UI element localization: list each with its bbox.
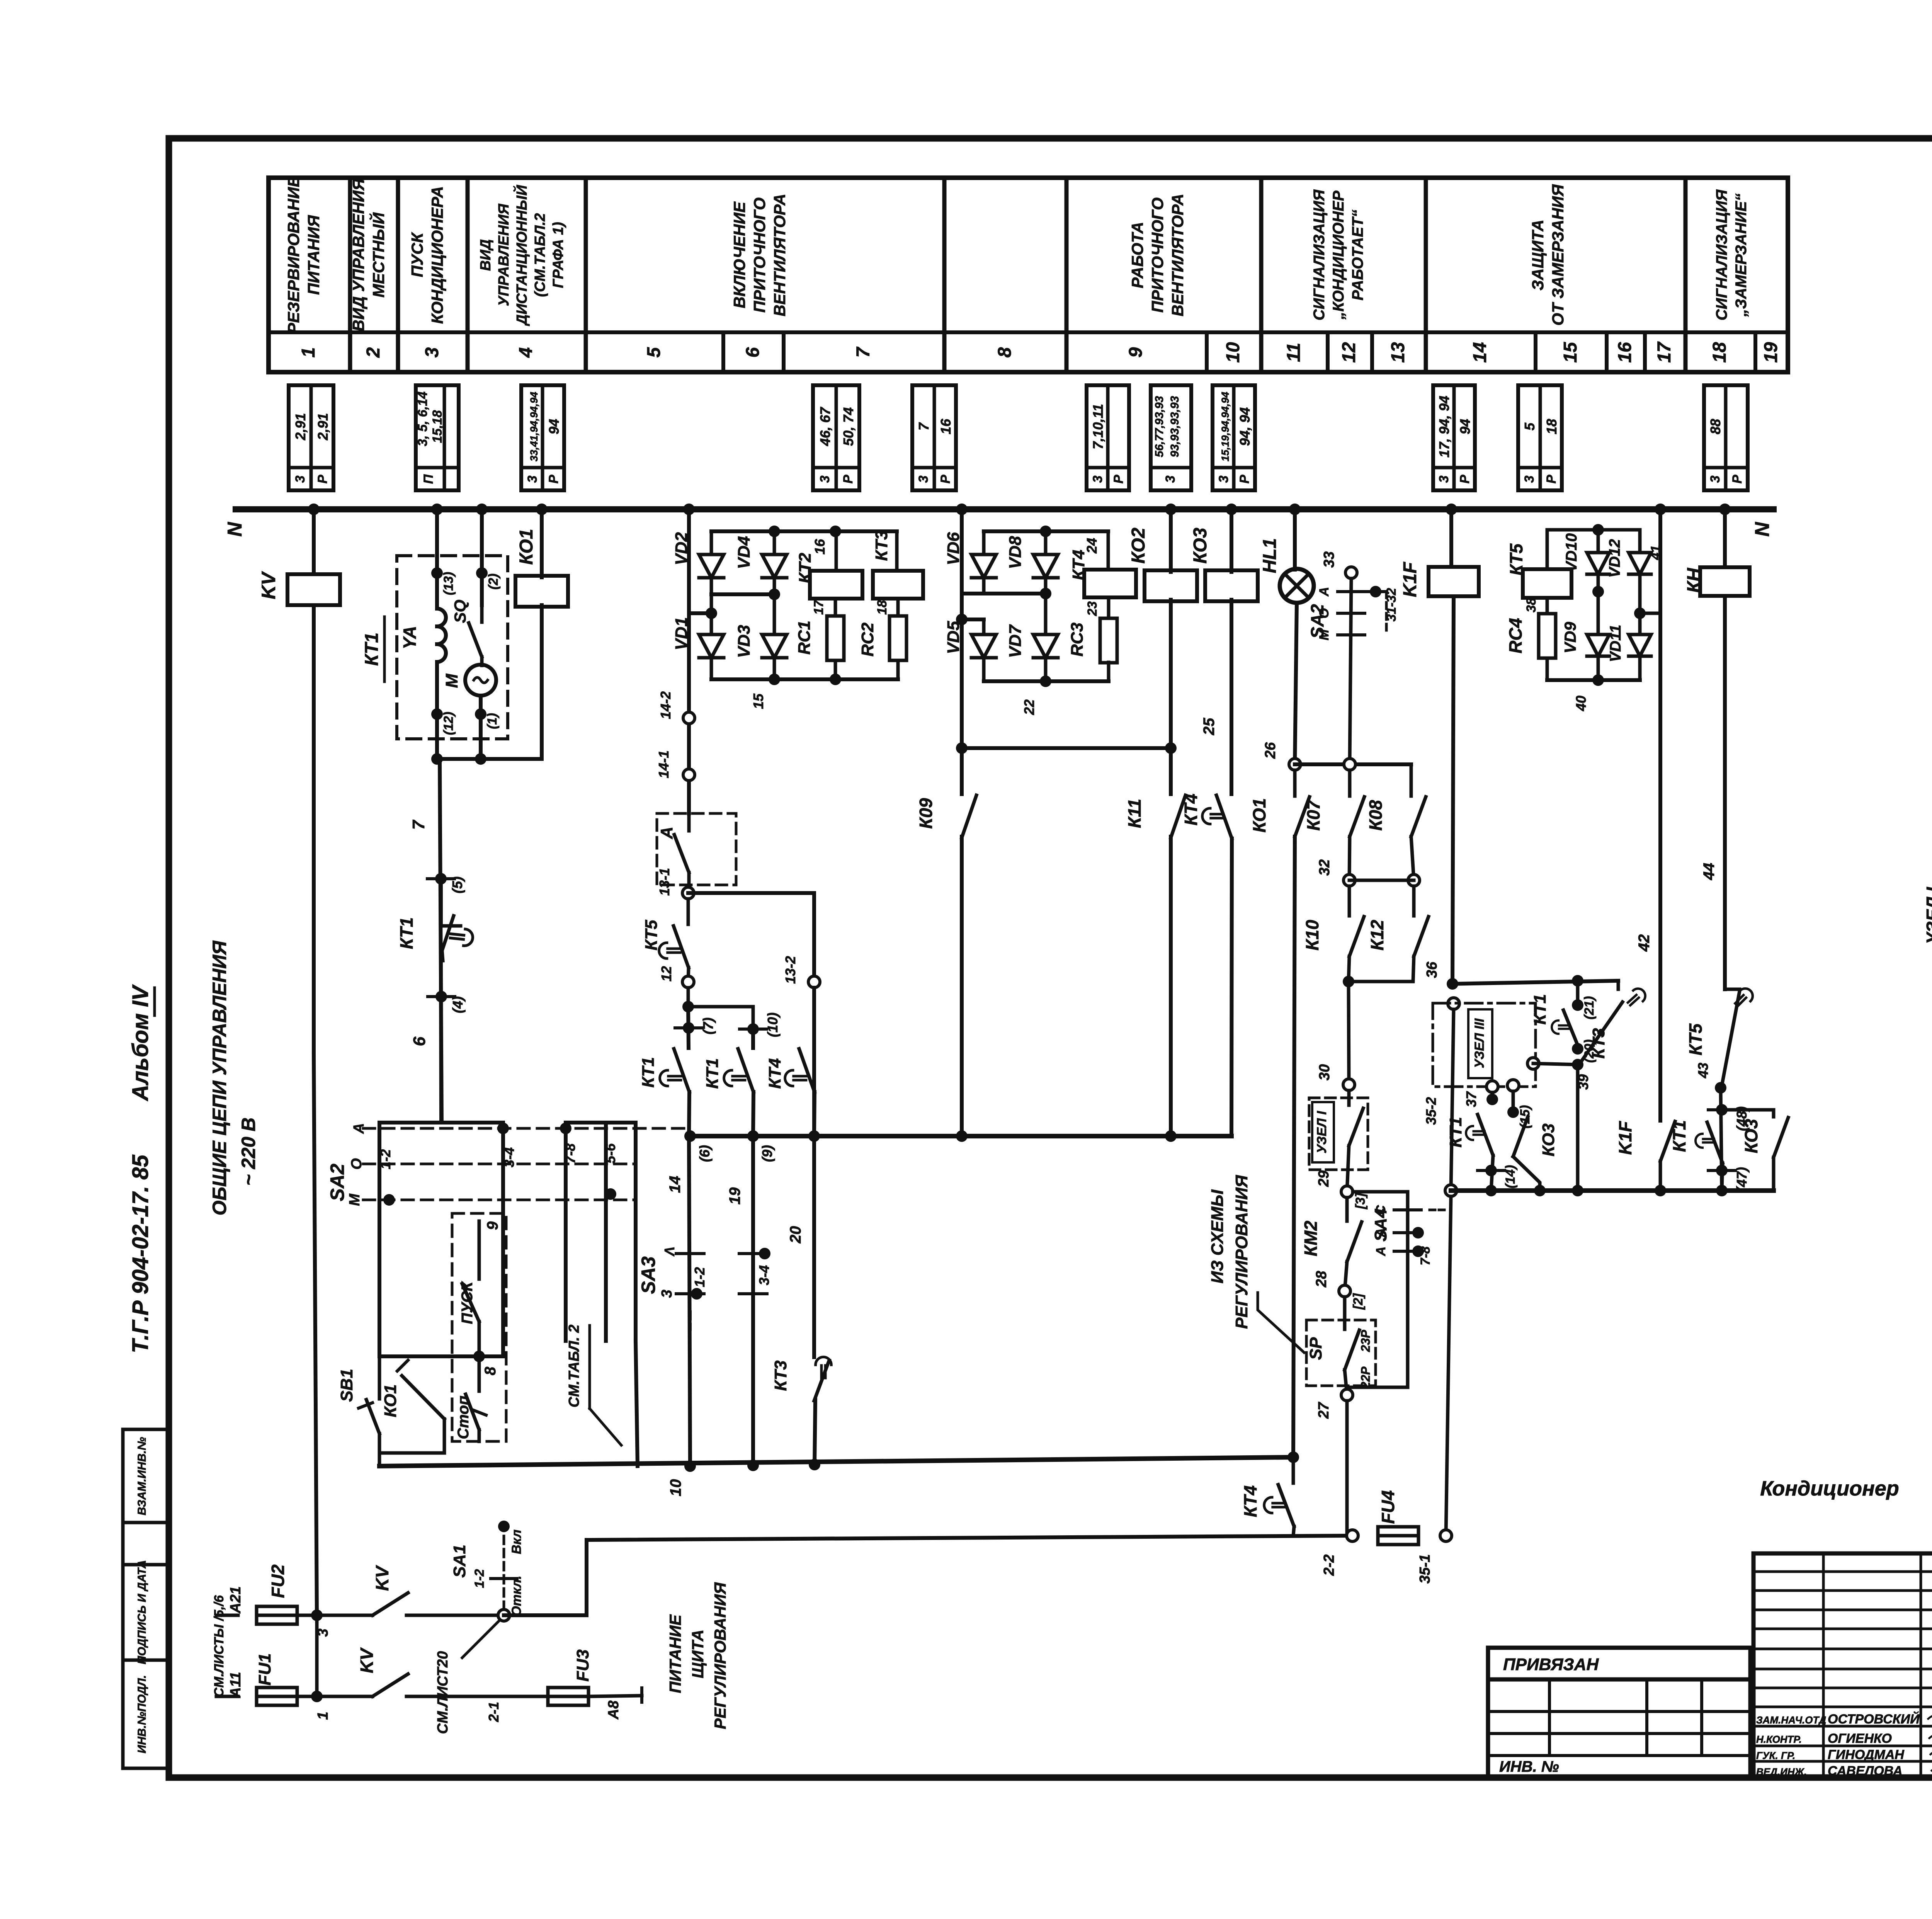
svg-text:Р: Р <box>315 475 330 483</box>
horizontal 1936 link <box>962 746 1171 750</box>
svg-text:94: 94 <box>1457 419 1473 434</box>
button PUSK contact <box>462 1284 479 1322</box>
svg-text:10: 10 <box>667 1479 684 1497</box>
svg-text:93,93,93,93: 93,93,93,93 <box>1168 396 1181 457</box>
svg-text:FU1: FU1 <box>255 1653 274 1685</box>
svg-text:VD1: VD1 <box>672 617 691 650</box>
svg-text:VD2: VD2 <box>672 532 691 565</box>
svg-text:29: 29 <box>1316 1170 1332 1187</box>
wire KO1 branch <box>540 509 544 577</box>
svg-text:~ 220 В: ~ 220 В <box>238 1118 259 1186</box>
title block signature squiggles <box>1928 1715 1932 1720</box>
svg-text:28: 28 <box>1313 1271 1330 1288</box>
svg-text:3, 5, 6,14: 3, 5, 6,14 <box>415 391 430 446</box>
svg-text:15: 15 <box>750 693 766 709</box>
contact K09 <box>960 748 964 794</box>
svg-text:Р: Р <box>1730 475 1745 483</box>
svg-text:3: 3 <box>1522 475 1537 483</box>
xref box under col9b <box>1151 385 1191 490</box>
switch SQ <box>480 605 484 622</box>
svg-text:М: М <box>347 1193 363 1206</box>
contact KT5 on v1 <box>687 899 690 924</box>
wire KO2 down <box>1169 600 1173 748</box>
svg-text:К07: К07 <box>1303 799 1323 831</box>
svg-text:VD11: VD11 <box>1607 624 1624 662</box>
svg-text:ВЕНТИЛЯТОРА: ВЕНТИЛЯТОРА <box>770 194 789 316</box>
svg-text:VD12: VD12 <box>1606 539 1623 578</box>
svg-text:(12): (12) <box>441 712 456 735</box>
contact KT1 on v1 <box>674 1049 689 1092</box>
svg-text:Вкл: Вкл <box>509 1529 524 1554</box>
svg-text:КО2: КО2 <box>1128 527 1149 563</box>
svg-text:7: 7 <box>409 819 428 830</box>
svg-text:КТ3: КТ3 <box>872 531 891 561</box>
terminal 27 <box>1341 1389 1353 1401</box>
wire 7 main descent <box>440 759 442 1123</box>
contact K07 <box>1348 770 1352 796</box>
bus junction at x=1402 <box>536 504 548 515</box>
terminal 26 and label <box>1289 759 1301 770</box>
svg-text:M: M <box>442 673 461 688</box>
junction (9) on rail1 <box>747 1130 759 1142</box>
rail3 bottom right <box>1451 1188 1774 1193</box>
svg-text:ПОДПИСЬ И ДАТА: ПОДПИСЬ И ДАТА <box>136 1560 148 1664</box>
svg-text:КО3: КО3 <box>1539 1123 1558 1156</box>
coil KT5 branch <box>1523 569 1571 598</box>
wire KO1 selfhold bottom <box>443 1419 446 1453</box>
resistor RC3 <box>1107 597 1111 618</box>
contact KO3 15 column <box>1512 1091 1515 1112</box>
contact KT3 right <box>1617 981 1620 989</box>
svg-text:8: 8 <box>995 347 1015 357</box>
svg-text:КТ1: КТ1 <box>362 633 382 666</box>
terminal 12 <box>682 976 694 988</box>
svg-text:3: 3 <box>1437 475 1451 483</box>
svg-text:РАБОТА: РАБОТА <box>1128 222 1146 288</box>
wire HL1 down to 26 <box>1295 603 1297 764</box>
svg-text:KV: KV <box>258 571 279 599</box>
svg-text:SP: SP <box>1306 1337 1325 1360</box>
title block name grid <box>1753 1553 1932 1778</box>
svg-text:(14): (14) <box>1503 1165 1518 1188</box>
svg-text:32: 32 <box>1316 859 1333 876</box>
junction feed1 <box>311 1609 323 1621</box>
svg-text:26: 26 <box>1262 742 1279 759</box>
terminal 13-1 <box>682 887 694 899</box>
svg-text:19: 19 <box>1761 342 1781 363</box>
bottom rail block1 node 15 <box>710 658 713 679</box>
contact K10 <box>1348 886 1351 916</box>
svg-text:ПРИТОЧНОГО: ПРИТОЧНОГО <box>1148 197 1167 313</box>
svg-text:17: 17 <box>1654 341 1675 363</box>
label 16 <box>835 531 838 571</box>
svg-text:Р: Р <box>1237 475 1252 483</box>
svg-text:УПРАВЛЕНИЯ: УПРАВЛЕНИЯ <box>496 203 512 306</box>
svg-text:Λ: Λ <box>662 1247 677 1257</box>
svg-text:5: 5 <box>1522 422 1537 430</box>
dot 47 <box>1716 1165 1728 1176</box>
svg-text:12: 12 <box>1339 342 1359 363</box>
svg-text:ДИСТАНЦИОННЫЙ: ДИСТАНЦИОННЫЙ <box>513 185 530 326</box>
wire K1F long down <box>1452 596 1454 984</box>
diode VD5 <box>971 635 996 658</box>
svg-text:ИНВ. №: ИНВ. № <box>1499 1758 1559 1775</box>
svg-text:ПРИТОЧНОГО: ПРИТОЧНОГО <box>750 197 769 313</box>
svg-text:36: 36 <box>1424 961 1440 978</box>
svg-text:РЕЗЕРВИРОВАНИЕ: РЕЗЕРВИРОВАНИЕ <box>284 175 303 333</box>
diode VD10 <box>1597 530 1600 551</box>
svg-text:K1F: K1F <box>1400 561 1420 597</box>
svg-text:24: 24 <box>1084 538 1100 554</box>
svg-text:42: 42 <box>1636 934 1653 952</box>
contact KT1 time NC <box>439 879 443 924</box>
svg-text:КОНДИЦИОНЕРА: КОНДИЦИОНЕРА <box>428 186 446 324</box>
svg-text:23: 23 <box>1085 601 1100 616</box>
wire v3 below rail1 <box>812 1136 816 1357</box>
terminal 13-2 <box>812 893 816 982</box>
svg-text:15: 15 <box>1560 342 1581 363</box>
svg-text:5-6: 5-6 <box>602 1143 618 1164</box>
second rail block1 <box>689 611 711 615</box>
svg-text:„КОНДИЦИОНЕР: „КОНДИЦИОНЕР <box>1330 191 1347 320</box>
svg-text:ПИТАНИЕ: ПИТАНИЕ <box>666 1614 684 1693</box>
wire 42 from bus <box>1658 509 1662 613</box>
wire KV branch <box>312 509 316 572</box>
wire KT1 box to node 7 <box>435 739 439 759</box>
diode VD3 <box>773 594 776 634</box>
terminals 32 <box>1344 874 1355 886</box>
svg-text:О: О <box>1317 608 1332 618</box>
contact KT5 right <box>1725 988 1740 991</box>
fuse FU1 <box>257 1688 297 1705</box>
wire 44 down <box>1723 596 1727 989</box>
second rail block2 <box>956 614 968 625</box>
svg-text:3: 3 <box>1216 475 1231 483</box>
contact uzel I small <box>1347 1090 1351 1105</box>
dashed box A remote <box>657 813 736 885</box>
svg-text:VD10: VD10 <box>1563 533 1580 572</box>
mid rail block2 <box>982 578 986 594</box>
wire SB1 to bottom rail <box>378 1434 381 1466</box>
header table outer box <box>269 178 1788 372</box>
header table full-height column lines <box>348 178 352 372</box>
svg-text:ПУСК: ПУСК <box>459 1281 476 1324</box>
junction 8 <box>473 1351 485 1362</box>
wire KO1 aux long down <box>1293 837 1295 1457</box>
title block change grid <box>1488 1710 1750 1713</box>
svg-text:VD3: VD3 <box>735 625 753 658</box>
terminal 33 <box>1345 567 1357 578</box>
relay coil KO3 <box>1205 570 1258 601</box>
svg-text:SA3: SA3 <box>638 1256 659 1294</box>
svg-text:16: 16 <box>938 419 954 434</box>
svg-text:КТ5: КТ5 <box>1506 543 1526 575</box>
junction (13) <box>431 567 443 579</box>
label 38 and RC4 <box>1546 598 1549 612</box>
xref box under col9a <box>1087 385 1129 490</box>
svg-text:20: 20 <box>787 1226 804 1244</box>
svg-text:6: 6 <box>743 347 763 357</box>
wire KV coil down to feed <box>312 605 316 1055</box>
svg-text:30: 30 <box>1316 1064 1333 1080</box>
svg-text:KV: KV <box>372 1565 392 1591</box>
svg-text:ГИНОДМАН: ГИНОДМАН <box>1828 1747 1905 1762</box>
svg-text:11: 11 <box>1284 343 1304 362</box>
svg-text:VD6: VD6 <box>944 532 963 565</box>
svg-text:38: 38 <box>1524 598 1539 612</box>
resistor RC2 <box>896 599 900 616</box>
svg-text:35-1: 35-1 <box>1417 1554 1433 1584</box>
svg-text:УЗЕЛ III: УЗЕЛ III <box>1472 1018 1487 1068</box>
bus junction at x=3351 <box>1289 504 1301 515</box>
contact KT1 37 column <box>1491 1092 1494 1099</box>
svg-text:А: А <box>657 827 676 839</box>
top rail block2 <box>984 529 1108 533</box>
svg-text:ИЗ СХЕМЫ: ИЗ СХЕМЫ <box>1208 1189 1227 1284</box>
svg-text:4: 4 <box>516 347 536 358</box>
junction 48 <box>1721 1088 1722 1191</box>
svg-text:КТ1: КТ1 <box>1531 994 1549 1025</box>
svg-text:(47): (47) <box>1734 1167 1750 1192</box>
header table band/number divider <box>269 330 1788 334</box>
SA2 ticks M O A <box>1338 590 1365 593</box>
header table number-row column lines <box>721 332 725 372</box>
relay coil KH <box>1700 567 1750 596</box>
svg-text:7,10,11: 7,10,11 <box>1090 404 1106 449</box>
contact KM2 <box>1345 1198 1349 1221</box>
wire KH branch <box>1723 509 1727 567</box>
svg-text:15,18: 15,18 <box>430 410 445 443</box>
svg-text:К08: К08 <box>1366 800 1386 831</box>
wire KO2 branch <box>1169 509 1173 572</box>
svg-text:К11: К11 <box>1124 799 1145 828</box>
svg-text:FU3: FU3 <box>573 1649 592 1681</box>
wire KO3 branch <box>1230 509 1233 572</box>
svg-text:Альбом IV: Альбом IV <box>128 984 153 1102</box>
svg-text:КТ4: КТ4 <box>765 1058 784 1089</box>
bottom rail KT5 block node 40 <box>1597 656 1600 680</box>
svg-text:6: 6 <box>410 1036 429 1046</box>
bottom rail block2 node 22 <box>982 658 986 681</box>
svg-text:3: 3 <box>818 475 832 483</box>
svg-text:КТ3: КТ3 <box>1589 1028 1608 1059</box>
svg-text:К12: К12 <box>1367 920 1387 951</box>
svg-text:Р: Р <box>1111 475 1126 483</box>
svg-text:19: 19 <box>726 1187 743 1204</box>
svg-text:2: 2 <box>363 347 384 358</box>
svg-text:Р: Р <box>1458 475 1472 483</box>
svg-text:3-4: 3-4 <box>756 1265 772 1285</box>
svg-text:15,19,94,94,94: 15,19,94,94,94 <box>1219 392 1231 461</box>
svg-text:(4): (4) <box>450 996 466 1013</box>
svg-text:УЗЕЛ I: УЗЕЛ I <box>1315 1111 1329 1153</box>
outer drawing frame <box>169 138 1932 1778</box>
xref box under col15 <box>1518 385 1562 490</box>
svg-text:ВЗАМ.ИНВ.№: ВЗАМ.ИНВ.№ <box>136 1437 148 1516</box>
junction (12) <box>435 662 439 739</box>
dot 14 <box>1485 1165 1497 1176</box>
svg-text:9: 9 <box>1126 347 1146 357</box>
svg-text:3: 3 <box>659 1290 675 1298</box>
svg-text:94: 94 <box>546 419 562 434</box>
pusk stop dashed box <box>452 1213 506 1441</box>
contact KO1 self-hold <box>378 1356 381 1376</box>
svg-text:13-1: 13-1 <box>656 868 672 896</box>
SA2 dot 31-32 <box>1370 586 1381 597</box>
svg-text:1-2: 1-2 <box>472 1569 487 1588</box>
svg-text:14: 14 <box>1470 342 1490 362</box>
svg-text:1-2: 1-2 <box>692 1267 707 1287</box>
wire 13-1 cross to v3 <box>688 891 814 895</box>
svg-text:УЗЕЛ I: УЗЕЛ I <box>1923 887 1932 945</box>
junction (2) <box>476 567 488 579</box>
bus junction at x=812 <box>308 504 320 515</box>
svg-text:10: 10 <box>1223 342 1243 363</box>
svg-text:YA: YA <box>400 626 420 650</box>
svg-text:[2]: [2] <box>1351 1293 1366 1310</box>
bus N horizontal <box>236 506 1774 512</box>
svg-text:КТ3: КТ3 <box>771 1361 790 1391</box>
contact KT1 on v2 <box>738 1049 753 1092</box>
xref box under col5 <box>813 385 859 490</box>
svg-text:7-8: 7-8 <box>1418 1246 1433 1265</box>
bus junction at x=4297 <box>1655 504 1666 515</box>
wire branch VD block2 <box>960 509 964 748</box>
svg-text:КТ1: КТ1 <box>1669 1120 1689 1152</box>
svg-text:КО1: КО1 <box>516 529 537 565</box>
svg-text:44: 44 <box>1701 863 1718 881</box>
svg-text:ПИТАНИЯ: ПИТАНИЯ <box>304 215 323 295</box>
svg-text:КТ4: КТ4 <box>1069 550 1088 580</box>
junction 36 <box>1447 978 1458 990</box>
svg-text:Т.Г.Р 904-02-17. 85: Т.Г.Р 904-02-17. 85 <box>128 1155 153 1353</box>
svg-text:VD9: VD9 <box>1561 622 1579 653</box>
feed1 elbow up right <box>504 1536 1352 1615</box>
svg-text:К10: К10 <box>1302 920 1322 951</box>
terminal 28 <box>1339 1285 1350 1297</box>
xref box under col18 <box>1704 385 1748 490</box>
svg-text:35-2: 35-2 <box>1423 1097 1439 1125</box>
wire down from 39 <box>1576 1065 1580 1191</box>
wire KO1 to node7 rail <box>540 605 544 759</box>
terminal on box right <box>1527 1058 1539 1069</box>
dot 20 <box>1572 1043 1583 1055</box>
wire v1 SA3 to rail2 <box>689 1136 690 1466</box>
contact KV feed2 <box>372 1674 408 1696</box>
junction branch to v2 <box>687 988 690 1007</box>
svg-text:КТ1: КТ1 <box>703 1058 722 1089</box>
svg-text:3: 3 <box>1090 475 1105 483</box>
uzel I small dashed box <box>1309 1098 1368 1170</box>
SA2 dashed position rows M O A <box>363 1127 690 1130</box>
svg-text:ИНВ.№ПОДЛ.: ИНВ.№ПОДЛ. <box>136 1675 148 1754</box>
svg-text:18: 18 <box>1709 342 1730 363</box>
svg-text:КТ4: КТ4 <box>1181 794 1201 826</box>
svg-text:КМ2: КМ2 <box>1301 1220 1321 1256</box>
svg-text:9: 9 <box>484 1221 501 1230</box>
svg-text:43: 43 <box>1695 1063 1711 1079</box>
label uzel III <box>1468 1009 1492 1078</box>
svg-text:7: 7 <box>853 346 874 357</box>
relay coil KO2 <box>1145 570 1197 601</box>
svg-text:К09: К09 <box>916 798 936 829</box>
terminal 14-1 <box>683 769 695 781</box>
contact KO1 aux <box>1293 770 1297 796</box>
bus junction at x=4464 <box>1719 504 1731 515</box>
svg-text:22: 22 <box>1021 699 1037 715</box>
terminal 35-2 <box>1448 998 1459 1009</box>
contact KT4 on v3 <box>799 1049 815 1092</box>
svg-text:33,41,94,94,94: 33,41,94,94,94 <box>528 392 540 461</box>
xref box under col3 <box>416 385 459 490</box>
svg-text:3: 3 <box>525 475 540 483</box>
svg-text:КО3: КО3 <box>1190 527 1211 563</box>
svg-text:(7): (7) <box>700 1017 716 1034</box>
dashed box KT1 actuator <box>397 556 508 739</box>
bus junction at x=1131 <box>431 504 443 515</box>
wire branch VD block1 <box>687 509 691 613</box>
svg-text:K1F: K1F <box>1615 1121 1635 1155</box>
svg-text:56,77,93,93: 56,77,93,93 <box>1153 396 1166 457</box>
svg-text:ОТ ЗАМЕРЗАНИЯ: ОТ ЗАМЕРЗАНИЯ <box>1549 184 1567 326</box>
coil KT3 <box>873 571 923 599</box>
svg-text:12: 12 <box>658 966 674 982</box>
svg-text:SA2: SA2 <box>327 1164 348 1201</box>
svg-text:7-8: 7-8 <box>562 1143 578 1164</box>
fuse FU2 <box>257 1606 297 1624</box>
inductor YA <box>437 609 446 626</box>
contact KT1 on 44 col <box>1707 1122 1723 1163</box>
bus junction at x=3756 <box>1446 504 1457 515</box>
svg-text:ПРИВЯЗАН: ПРИВЯЗАН <box>1503 1655 1599 1674</box>
svg-text:33: 33 <box>1321 551 1337 568</box>
junction (1) <box>479 696 483 739</box>
contact A remote <box>687 813 691 831</box>
SP dashed box <box>1306 1320 1376 1386</box>
svg-text:VD7: VD7 <box>1006 624 1025 658</box>
svg-text:Р: Р <box>841 475 855 483</box>
mid rail block1 <box>710 578 713 594</box>
coil KT2 <box>810 571 862 599</box>
junction (6) on rail1 <box>684 1130 696 1142</box>
svg-text:ВИД УПРАВЛЕНИЯ: ВИД УПРАВЛЕНИЯ <box>349 178 367 332</box>
svg-text:SA4: SA4 <box>1371 1208 1390 1242</box>
feed1 wire left <box>216 1614 238 1617</box>
svg-text:А11: А11 <box>228 1672 244 1698</box>
svg-text:СМ.ЛИСТ20: СМ.ЛИСТ20 <box>435 1651 451 1734</box>
uzel III dashdot box <box>1433 1003 1536 1087</box>
junction (4) <box>441 961 441 1123</box>
svg-text:А: А <box>1317 587 1332 597</box>
leader iz shemy <box>1258 1293 1304 1352</box>
svg-text:ВКЛЮЧЕНИЕ: ВКЛЮЧЕНИЕ <box>730 201 748 308</box>
svg-text:Р: Р <box>938 475 953 483</box>
svg-text:О: О <box>349 1158 365 1170</box>
svg-text:РЕГУЛИРОВАНИЯ: РЕГУЛИРОВАНИЯ <box>1232 1175 1251 1329</box>
svg-text:КО3: КО3 <box>1741 1119 1761 1153</box>
svg-text:(СМ.ТАБЛ.2: (СМ.ТАБЛ.2 <box>532 213 548 297</box>
svg-text:КТ1: КТ1 <box>396 917 417 949</box>
svg-text:А21: А21 <box>228 1586 244 1614</box>
svg-text:Н.КОНТР.: Н.КОНТР. <box>1756 1734 1802 1745</box>
svg-text:1: 1 <box>298 347 319 358</box>
wire SQ branch <box>480 509 484 605</box>
svg-text:31-32: 31-32 <box>1384 588 1399 621</box>
svg-text:СМ.ЛИСТЫ /5,/6: СМ.ЛИСТЫ /5,/6 <box>212 1595 226 1697</box>
svg-text:KV: KV <box>357 1647 377 1673</box>
svg-text:FU2: FU2 <box>268 1564 288 1598</box>
svg-text:КТ1: КТ1 <box>639 1057 658 1088</box>
